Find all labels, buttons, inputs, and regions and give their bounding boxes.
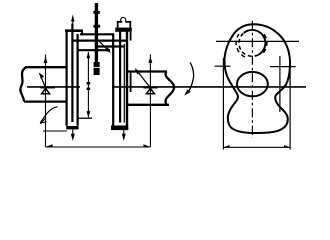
side cross mark left: [215, 65, 231, 67]
right flange edge drop: [130, 32, 132, 41]
central bolt shank: [95, 3, 98, 67]
bottom width dimension line: [223, 146, 290, 148]
right support vertical construction line: [149, 55, 151, 148]
dimension arrow right: [284, 145, 290, 147]
right plate inner thin line: [123, 44, 125, 123]
left plate bottom cap: [66, 126, 78, 129]
beam bar1: [80, 33, 114, 35]
down arrow below left plate: [72, 130, 74, 137]
thin line left of plate bottom: [43, 130, 67, 132]
hidden shaft end edge in right fork slot: [130, 72, 132, 92]
locating triangle symbol right: [144, 88, 158, 94]
shaft right (workpiece bar, broken end): [127, 72, 174, 105]
side cross mark right: [270, 56, 296, 112]
bolt lower tip: [94, 62, 100, 75]
right plate vertical P6: [126, 32, 128, 126]
force arrow above left plate: [72, 19, 74, 29]
right up arrow above shaft: [149, 56, 153, 63]
leader arrow on left triangle: [40, 74, 45, 88]
dimension arrow left: [224, 145, 230, 147]
top hole circle solid arc (top-right): [244, 30, 266, 55]
right extension line: [289, 70, 291, 150]
left up arrow above shaft: [44, 56, 48, 63]
centerline main horizontal left segment: [27, 86, 80, 88]
bottom line right arrow tick: [143, 144, 150, 147]
down arrow below right plate: [123, 130, 125, 137]
left extension line: [222, 58, 224, 150]
oval boss and fork jaw outline (gourd): [224, 24, 290, 133]
beam bar2: [73, 39, 128, 41]
middle hub circle: [237, 72, 268, 96]
top hole dashed arc right: [263, 34, 267, 53]
fork slot bottom ledge line: [79, 117, 92, 119]
bottom line left arrow tick: [46, 144, 53, 147]
bolt crossbar upper: [93, 11, 99, 14]
horizontal centerline of top hole: [216, 40, 299, 42]
left plate vertical P1: [65, 32, 67, 126]
nut block on right plate: [118, 22, 131, 28]
left plate vertical P3: [76, 34, 78, 126]
left plate cap (top slab): [65, 29, 83, 32]
right plate flange slab: [115, 28, 132, 32]
beam bar4: [78, 49, 110, 51]
top hole dashed arc left: [236, 34, 245, 57]
beam bar3: [95, 45, 124, 47]
shaft left (workpiece bar, broken end): [20, 67, 67, 101]
curved leader arrow bottom left: [41, 107, 58, 123]
left plate vertical P2: [71, 24, 73, 123]
right plate vertical P5: [119, 32, 121, 123]
leader arrow to bolt joint (diagonal): [99, 41, 109, 52]
bottom construction line between supports: [46, 146, 151, 148]
top hole circle dashed arc (bottom-left): [239, 33, 258, 56]
leader arrow on right triangle: [136, 70, 150, 88]
right plate vertical P4: [112, 35, 114, 126]
right plate bottom cap: [111, 126, 128, 131]
vertical centerline of side view: [251, 21, 253, 138]
left support vertical construction line: [45, 55, 47, 148]
gap dimension line with arrows: [87, 52, 89, 117]
bolt crossbar lower: [93, 25, 100, 28]
centerline main horizontal right segment (runs through to side view): [112, 86, 306, 88]
ring hook on nut: [121, 17, 126, 21]
rotation arc arrow between views: [188, 63, 194, 93]
locating triangle symbol left: [41, 88, 56, 94]
cap right edge drop to bar1: [81, 32, 83, 35]
